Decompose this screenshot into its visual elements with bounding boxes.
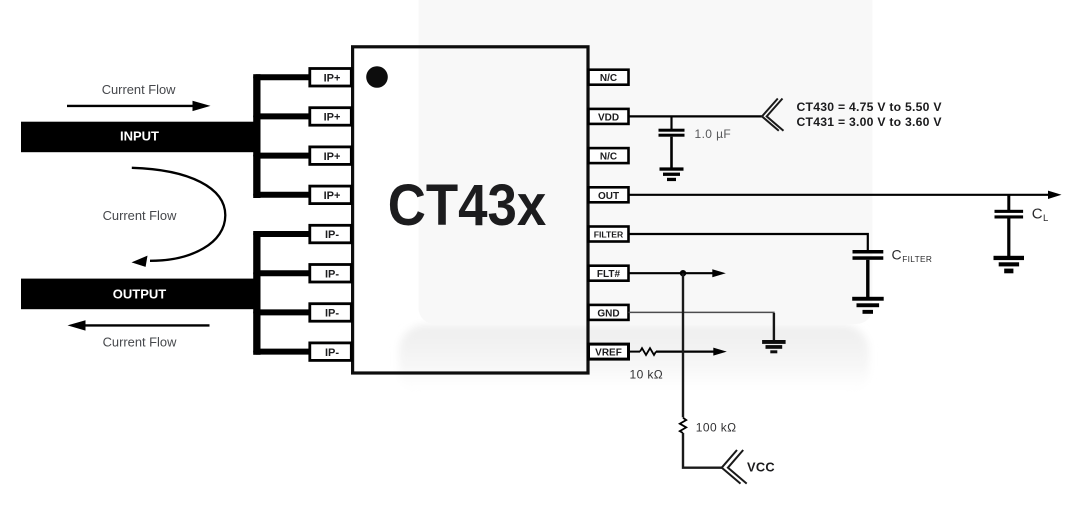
ground symbol at GND	[762, 340, 786, 353]
svg-text:IP+: IP+	[324, 190, 341, 202]
stub wire pin IP+ 3	[253, 153, 313, 159]
capacitor C1 plates	[659, 129, 685, 132]
svg-text:VREF: VREF	[595, 348, 622, 359]
wire OUT	[629, 194, 1050, 196]
wire FLT#	[629, 272, 714, 274]
pin box GND	[589, 305, 629, 320]
OUTPUT bar	[21, 279, 260, 310]
arrow current flow top	[67, 105, 194, 107]
capacitor CFILTER plates	[853, 250, 884, 254]
ground below CFILTER	[852, 297, 884, 314]
svg-text:VCC: VCC	[747, 460, 775, 475]
pin box IP- (pin5)	[310, 225, 352, 243]
pin box VDD	[589, 109, 629, 124]
svg-text:IP-: IP-	[325, 308, 339, 320]
svg-text:OUT: OUT	[598, 191, 619, 202]
svg-text:IP+: IP+	[324, 151, 341, 163]
stub wire pin IP- 6	[253, 270, 313, 276]
svg-text:IP-: IP-	[325, 229, 339, 241]
capacitor CL plates	[995, 210, 1024, 213]
svg-text:FLT#: FLT#	[597, 269, 621, 280]
svg-text:100 kΩ: 100 kΩ	[696, 421, 737, 435]
capacitor C1 1.0uF lead	[670, 116, 672, 129]
supply chevron at VDD	[762, 99, 784, 131]
pin box IP- (pin7)	[310, 304, 352, 322]
svg-text:FILTER: FILTER	[902, 254, 932, 264]
stub wire pin IP- 5	[253, 231, 313, 237]
background shadow under panel	[399, 325, 869, 399]
wire FILTER	[629, 234, 868, 250]
svg-text:FILTER: FILTER	[594, 229, 624, 239]
svg-text:VDD: VDD	[598, 112, 619, 123]
pin box VREF	[589, 344, 629, 359]
wire GND (thin)	[629, 312, 774, 340]
pin box IP- (pin8)	[310, 343, 352, 361]
pin box N/C (top)	[589, 70, 629, 85]
pin box IP+ (pin2)	[310, 108, 352, 126]
pin box N/C (2nd)	[589, 148, 629, 163]
resistor R1 10k	[640, 348, 656, 355]
stub wire pin IP- 8	[253, 349, 313, 355]
arrow current flow bottom	[68, 320, 86, 330]
ground below C1	[660, 167, 684, 181]
svg-text:IP-: IP-	[325, 347, 339, 359]
pin box IP+ (pin4)	[310, 186, 352, 204]
capacitor CL lead	[1007, 195, 1010, 210]
svg-text:IP-: IP-	[325, 268, 339, 280]
pin box FLT#	[589, 266, 629, 281]
resistor R2 100k	[680, 418, 686, 433]
pin box IP+ (pin3)	[310, 147, 352, 165]
svg-text:INPUT: INPUT	[120, 129, 159, 144]
svg-text:C: C	[892, 247, 902, 263]
svg-text:Current Flow: Current Flow	[102, 82, 176, 97]
svg-text:GND: GND	[597, 308, 619, 319]
svg-text:IP+: IP+	[324, 112, 341, 124]
svg-text:N/C: N/C	[600, 73, 617, 84]
pin box OUT	[589, 187, 629, 202]
VCC chevron	[722, 450, 747, 484]
vertical wire from FLT# node down	[682, 273, 684, 417]
wire VDD	[629, 115, 763, 117]
thick bus IP+	[253, 74, 260, 198]
stub wire pin IP+ 2	[253, 113, 313, 119]
pin box IP- (pin6)	[310, 265, 352, 283]
svg-text:1.0 µF: 1.0 µF	[695, 127, 732, 141]
svg-text:C: C	[1032, 206, 1043, 223]
pin box FILTER	[589, 227, 629, 242]
curved arrow	[132, 168, 226, 261]
pin-1 dot	[366, 66, 388, 88]
IC U1 CT43x body	[353, 47, 588, 373]
INPUT bar	[21, 122, 260, 153]
thick bus IP-	[253, 231, 260, 355]
wire to VCC	[683, 433, 722, 468]
svg-text:L: L	[1043, 213, 1048, 224]
svg-text:10 kΩ: 10 kΩ	[630, 367, 664, 381]
svg-text:CT430 = 4.75 V to 5.50 V: CT430 = 4.75 V to 5.50 V	[797, 100, 943, 114]
junction node on FLT#	[680, 270, 686, 276]
svg-text:OUTPUT: OUTPUT	[113, 286, 167, 301]
pin box IP+ (pin1)	[310, 69, 352, 87]
background panel	[419, 0, 873, 324]
svg-text:Current Flow: Current Flow	[103, 335, 177, 350]
stub wire pin IP+ 4	[253, 192, 313, 198]
stub wire pin IP+ 1	[253, 74, 313, 80]
stub wire pin IP- 7	[253, 309, 313, 315]
svg-text:Current Flow: Current Flow	[103, 208, 177, 223]
svg-text:CT431 = 3.00 V to 3.60 V: CT431 = 3.00 V to 3.60 V	[797, 115, 943, 129]
ground below CL	[994, 256, 1025, 274]
wire VREF with 10k resistor	[629, 351, 641, 353]
svg-text:IP+: IP+	[324, 72, 341, 84]
svg-text:CT43x: CT43x	[388, 173, 547, 238]
svg-text:N/C: N/C	[600, 152, 617, 163]
